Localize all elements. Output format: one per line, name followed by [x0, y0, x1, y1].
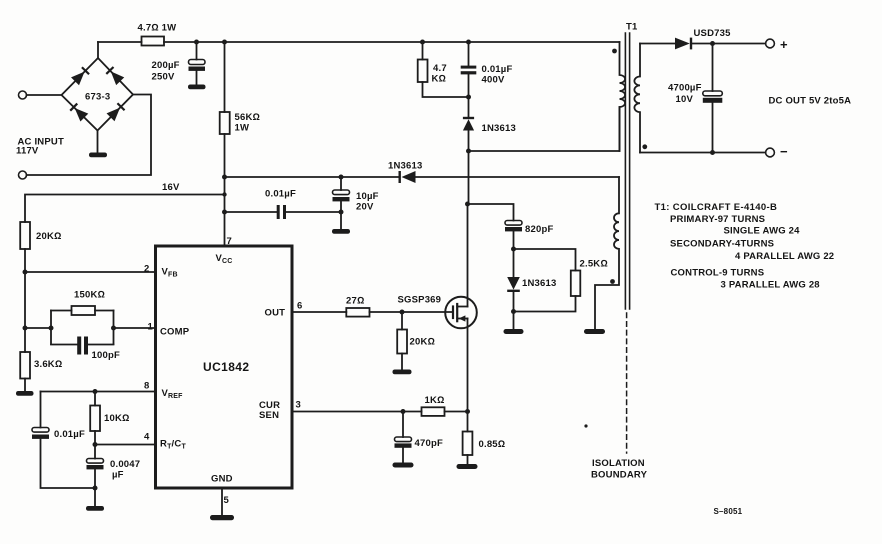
svg-text:250V: 250V	[152, 72, 175, 83]
svg-text:COMP: COMP	[160, 327, 190, 338]
wire COMP to pin 1	[114, 327, 156, 329]
node snubber ground junction	[511, 309, 516, 314]
resistor 10Kohm	[90, 406, 100, 432]
svg-text:4.7: 4.7	[433, 63, 447, 74]
svg-text:0.0047: 0.0047	[110, 459, 140, 470]
diode USD735 (pointing right)	[675, 38, 690, 50]
node 820pF / 2.5K junction	[511, 247, 516, 252]
node RC network right junction	[111, 326, 116, 331]
wire 0.85 bottom to ground	[467, 455, 469, 464]
wire 2.5K bottom branch	[514, 296, 576, 312]
wire 10K bottom / RT-CT node	[94, 431, 96, 459]
ground (bridge)	[89, 153, 107, 158]
wire bridge bottom node to ground	[97, 131, 99, 153]
ground (0.85 sense)	[457, 464, 478, 469]
wire OUT pin 6 to 27 ohm	[292, 311, 346, 313]
wire 4700uF top lead	[712, 44, 714, 92]
svg-text:SECONDARY-4TURNS: SECONDARY-4TURNS	[670, 239, 774, 250]
svg-text:GND: GND	[211, 474, 233, 485]
wire 0.0047uF bottom to ground	[94, 469, 96, 506]
svg-text:20KΩ: 20KΩ	[36, 231, 62, 242]
wire 56K top lead	[224, 42, 226, 112]
svg-text:S–8051: S–8051	[714, 507, 743, 516]
wire RC network right vertical	[113, 311, 115, 345]
wire AC upper terminal to bridge left node	[27, 94, 62, 96]
ground (control winding)	[584, 329, 605, 334]
node HV rail / snubber cap junction	[466, 40, 471, 45]
bridge diode D3 (left-bottom arm)	[69, 102, 88, 121]
wire 200uF top lead	[196, 42, 198, 60]
transistor Q1 SGSP369 MOSFET body	[445, 297, 477, 329]
wire VREF left branch down to 0.01uF	[40, 392, 42, 428]
node VCC / aux-diode rail junction	[222, 175, 227, 180]
svg-text:10V: 10V	[676, 94, 694, 105]
DC output terminal -	[766, 148, 775, 157]
svg-text:3.6KΩ: 3.6KΩ	[34, 359, 62, 370]
wire RT/CT to pin 4	[95, 444, 156, 446]
svg-text:0.01µF: 0.01µF	[482, 64, 513, 75]
wire 470pF bottom to ground	[402, 448, 404, 463]
svg-text:470pF: 470pF	[415, 438, 443, 449]
svg-text:PRIMARY-97 TURNS: PRIMARY-97 TURNS	[670, 214, 765, 225]
wire snubber diode to ground	[513, 292, 515, 329]
svg-text:T1: T1	[626, 22, 638, 33]
svg-text:2: 2	[144, 264, 149, 275]
diode 1N3613 (clamp, pointing up)	[463, 119, 474, 130]
svg-text:1: 1	[148, 322, 154, 333]
svg-text:1N3613: 1N3613	[522, 278, 556, 289]
svg-text:4.7Ω 1W: 4.7Ω 1W	[138, 23, 177, 34]
svg-text:UC1842: UC1842	[203, 360, 249, 374]
wire MOSFET drain up to snubber node	[468, 131, 469, 307]
svg-text:1KΩ: 1KΩ	[425, 395, 445, 406]
wire aux rail with 1N3613	[225, 176, 400, 178]
wire 4700uF bottom lead	[712, 103, 714, 153]
svg-text:1N3613: 1N3613	[388, 161, 422, 172]
svg-text:56KΩ: 56KΩ	[235, 112, 261, 123]
svg-text:8: 8	[144, 381, 149, 392]
svg-text:RT/CT: RT/CT	[160, 439, 186, 451]
wire GND pin 5	[221, 488, 223, 515]
wire VFB to pin 2	[25, 271, 156, 273]
diode 1N3613 (snubber, pointing down)	[507, 277, 520, 290]
wire bridge top node to HV+ rail	[97, 42, 99, 58]
ground (3.6K)	[16, 391, 34, 396]
svg-text:OUT: OUT	[265, 308, 286, 319]
wire 4.7K top lead	[422, 42, 424, 60]
node drain / RC snubber junction	[465, 202, 470, 207]
node drain / primary return junction	[466, 149, 471, 154]
svg-text:VFB: VFB	[162, 267, 178, 279]
node aux rail / 10uF junction	[339, 175, 344, 180]
wire CUR SEN pin 3	[292, 411, 422, 413]
svg-text:BOUNDARY: BOUNDARY	[591, 470, 648, 481]
wire 0.01uF bottom to RT/CT ground corner	[41, 439, 96, 488]
bridge diode D2 (right-top arm)	[105, 66, 124, 85]
wire HV+ rail left part	[98, 41, 142, 43]
wire VCC bypass line right	[286, 211, 341, 213]
node output - / 4700uF junction	[710, 150, 715, 155]
transformer T1 core	[625, 33, 629, 309]
node VFB junction	[23, 270, 28, 275]
svg-text:200µF: 200µF	[152, 60, 180, 71]
svg-text:+: +	[780, 37, 788, 52]
diode 1N3613 (aux rectifier, pointing left)	[399, 171, 401, 183]
wire 27 ohm to MOSFET gate	[370, 311, 454, 313]
wire AC lower terminal to bridge right node	[27, 95, 152, 176]
svg-text:USD735: USD735	[694, 28, 732, 39]
node VCC / 16V rail junction	[222, 192, 226, 196]
wire VREF pin 8	[41, 391, 156, 393]
op-amp U1 UC1842 box	[156, 246, 293, 488]
transformer T1 primary winding	[620, 42, 626, 151]
svg-text:T1: COILCRAFT E-4140-B: T1: COILCRAFT E-4140-B	[655, 202, 778, 213]
node primary phase dot	[612, 49, 617, 54]
svg-text:SGSP369: SGSP369	[398, 295, 442, 306]
capacitor C1 200uF 250V	[189, 60, 206, 65]
svg-text:3 PARALLEL AWG 28: 3 PARALLEL AWG 28	[721, 280, 820, 291]
wire clamp diode to 0.01uF 400V	[468, 75, 470, 117]
resistor 0.85ohm	[463, 432, 473, 456]
resistor 27ohm	[346, 308, 369, 317]
DC output terminal +	[766, 39, 775, 48]
wire 1K to source node	[445, 411, 468, 413]
svg-text:673-3: 673-3	[85, 92, 110, 103]
wire HV+ rail to transformer primary top	[164, 41, 620, 43]
node HV rail / 4.7K junction	[420, 40, 425, 45]
svg-text:7: 7	[227, 236, 232, 247]
node COMP tap junction	[23, 326, 28, 331]
svg-text:10µF: 10µF	[356, 191, 379, 202]
svg-text:1N3613: 1N3613	[482, 123, 516, 134]
svg-text:2.5KΩ: 2.5KΩ	[580, 259, 608, 270]
node HV rail / 56K junction	[222, 40, 227, 45]
capacitor 0.01uF (VCC bypass)	[277, 205, 280, 219]
wire 820pF bottom	[513, 231, 515, 277]
AC input terminal (upper)	[19, 91, 27, 99]
svg-text:VREF: VREF	[162, 388, 184, 400]
resistor 3.6Kohm	[20, 352, 30, 379]
svg-text:VCC: VCC	[216, 253, 233, 265]
ground (10uF)	[332, 229, 350, 234]
capacitor 0.0047uF	[87, 459, 104, 464]
capacitor 4700uF 10V	[703, 91, 723, 96]
resistor 150Kohm	[72, 306, 96, 315]
node HV rail / 200uF junction	[194, 40, 199, 45]
svg-text:4: 4	[144, 432, 150, 443]
wire 56K bottom to VCC pin 7 of UC1842	[224, 134, 226, 246]
svg-text:CONTROL-9 TURNS: CONTROL-9 TURNS	[671, 268, 765, 279]
wire 20K top lead	[401, 312, 403, 330]
node VCC / 0.01uF junction	[222, 210, 227, 215]
node control phase dot	[610, 279, 615, 284]
node cur-sen / 470pF junction	[401, 409, 406, 414]
wire feedback divider column	[24, 249, 26, 352]
svg-text:4 PARALLEL AWG 22: 4 PARALLEL AWG 22	[735, 251, 834, 262]
node RC network left junction	[49, 326, 54, 331]
bridge diode D1 (left-top arm)	[71, 66, 90, 85]
svg-text:ISOLATION: ISOLATION	[592, 458, 645, 469]
svg-text:20V: 20V	[356, 202, 374, 213]
wire RC network top branch	[51, 310, 114, 312]
svg-text:−: −	[780, 144, 788, 159]
wire 20K bottom to ground	[401, 354, 403, 370]
transistor Q1 drain stub	[457, 306, 467, 308]
svg-text:0.01µF: 0.01µF	[54, 429, 85, 440]
wire secondary top rail to USD735	[640, 43, 675, 45]
AC input terminal (lower)	[19, 171, 27, 179]
ground (snubber)	[504, 329, 524, 334]
wire 2.5K top branch	[514, 249, 576, 271]
resistor 20Kohm (feedback upper)	[20, 222, 30, 249]
wire USD735 to + output terminal	[692, 43, 766, 45]
ground (200uF)	[188, 85, 206, 90]
node VREF / 10K junction	[93, 389, 98, 394]
ground (IC pin 5)	[210, 515, 234, 520]
wire primary return	[469, 107, 620, 151]
svg-text:KΩ: KΩ	[432, 74, 447, 85]
svg-text:820pF: 820pF	[525, 224, 553, 235]
isolation boundary dashed line	[626, 313, 628, 453]
node stray mark	[584, 424, 587, 427]
svg-text:100pF: 100pF	[92, 350, 120, 361]
resistor 2.5Kohm	[571, 271, 581, 297]
wire aux rail diode to control winding	[416, 176, 620, 178]
transistor Q1 gate electrode	[452, 307, 454, 319]
node output + / 4700uF junction	[710, 41, 715, 46]
svg-text:µF: µF	[112, 470, 124, 481]
svg-text:400V: 400V	[482, 75, 505, 86]
wire VCC bypass line	[225, 211, 277, 213]
svg-text:16V: 16V	[162, 182, 180, 193]
resistor 1Kohm	[422, 407, 445, 416]
resistor 4.7ohm 1W	[142, 37, 165, 46]
svg-text:117V: 117V	[16, 146, 39, 157]
capacitor 10uF 20V	[333, 190, 350, 195]
capacitor 470pF	[395, 437, 412, 442]
transistor Q1 source stub with substrate arrow	[457, 318, 467, 320]
wire 10uF top lead	[340, 177, 342, 190]
ground (470pF)	[393, 463, 414, 468]
resistor 56Kohm 1W	[220, 112, 230, 134]
node 10uF bottom junction	[339, 210, 344, 215]
node source / 0.85 junction	[465, 409, 470, 414]
svg-text:6: 6	[297, 301, 302, 312]
svg-text:0.01µF: 0.01µF	[265, 189, 296, 200]
transformer T1 secondary winding	[634, 44, 640, 153]
svg-text:5: 5	[224, 495, 230, 506]
resistor 4.7Kohm	[418, 60, 428, 83]
wire 470pF top lead	[402, 412, 404, 438]
capacitor 0.01uF (VREF bypass)	[32, 428, 49, 433]
node secondary phase dot	[642, 144, 647, 149]
wire 10uF bottom lead to ground	[340, 201, 342, 229]
svg-text:27Ω: 27Ω	[346, 296, 364, 307]
node timing ground junction	[93, 486, 98, 491]
wire secondary bottom rail	[640, 152, 766, 154]
node gate / 20K junction	[400, 310, 405, 315]
capacitor 100pF	[77, 337, 81, 355]
wire 200uF bottom lead	[196, 71, 198, 85]
capacitor 820pF	[505, 221, 522, 226]
wire 0.01uF 400V top to HV rail	[468, 42, 470, 66]
transistor Q1 channel bar	[456, 304, 458, 321]
capacitor 0.01uF 400V	[461, 66, 477, 69]
svg-text:4700µF: 4700µF	[668, 83, 702, 94]
transformer T1 control winding	[595, 177, 619, 329]
node RT/CT junction	[93, 442, 98, 447]
wire RC network bottom branch	[51, 344, 114, 346]
resistor 20Kohm (gate)	[397, 330, 407, 354]
svg-text:150KΩ: 150KΩ	[74, 290, 105, 301]
svg-text:SEN: SEN	[259, 410, 279, 421]
svg-text:DC OUT 5V 2to5A: DC OUT 5V 2to5A	[769, 96, 852, 107]
wire 3.6K to ground	[24, 379, 26, 392]
wire 10K top lead	[94, 392, 96, 406]
wire 4.7K bottom to clamp node	[423, 82, 469, 97]
svg-text:SINGLE AWG 24: SINGLE AWG 24	[724, 226, 801, 237]
bridge rectifier 673-3 diamond	[62, 58, 134, 131]
svg-text:1W: 1W	[235, 123, 250, 134]
wire COMP tap to RC network	[25, 327, 51, 329]
wire MOSFET source down	[467, 319, 469, 432]
wire RC network left vertical	[50, 311, 52, 345]
bridge diode D4 (right-bottom arm)	[107, 102, 126, 121]
ground (timing network)	[86, 506, 104, 511]
wire snubber node to 820pF	[468, 204, 514, 221]
node 4.7K / clamp junction	[466, 95, 471, 100]
wire 16V rail	[25, 195, 225, 223]
svg-text:20KΩ: 20KΩ	[410, 337, 436, 348]
svg-text:10KΩ: 10KΩ	[104, 413, 130, 424]
svg-text:3: 3	[296, 400, 301, 411]
svg-text:0.85Ω: 0.85Ω	[479, 439, 506, 450]
ground (gate 20K)	[393, 370, 412, 375]
